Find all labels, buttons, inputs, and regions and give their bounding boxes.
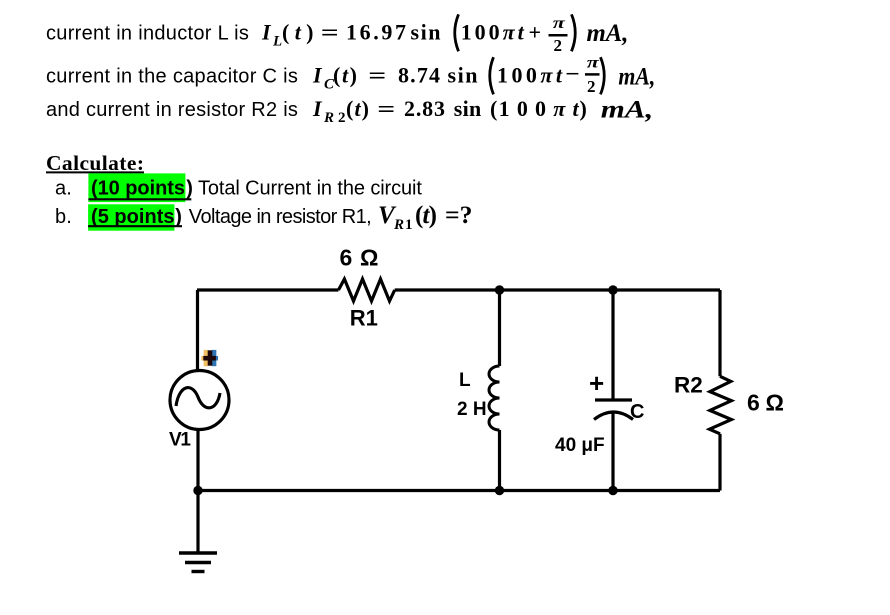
svg-text:mA,: mA,	[618, 64, 655, 91]
capacitor top plate	[595, 398, 632, 401]
node bottom-left junction	[193, 486, 202, 495]
svg-text:): )	[186, 178, 193, 200]
V1 plus sign blue ghost	[206, 350, 218, 366]
highlight a	[88, 173, 185, 202]
highlight b	[88, 204, 174, 230]
svg-text:current in inductor L is: current in inductor L is	[46, 23, 249, 45]
svg-text:V1: V1	[169, 430, 191, 451]
svg-text:L: L	[459, 370, 471, 391]
big right paren line2	[601, 57, 605, 94]
svg-text:): )	[175, 206, 182, 228]
svg-text:2: 2	[554, 36, 563, 55]
svg-text:sin: sin	[454, 96, 482, 121]
svg-text:6 Ω: 6 Ω	[747, 390, 784, 416]
bottom wire	[197, 489, 720, 492]
wire C branch bottom	[611, 412, 614, 491]
svg-text:I: I	[312, 96, 323, 121]
svg-text:−: −	[565, 61, 580, 86]
svg-text:40 μF: 40 μF	[555, 435, 605, 456]
wire L branch top	[498, 290, 501, 366]
svg-text:mA,: mA,	[587, 20, 629, 47]
svg-text:+: +	[589, 368, 604, 398]
wire top-right horizontal	[395, 288, 720, 291]
svg-text:(t): (t)	[333, 62, 357, 87]
big left paren line1	[455, 14, 459, 51]
ground bar 3	[192, 570, 205, 573]
ground bar 2	[185, 561, 211, 564]
svg-text:I: I	[261, 20, 272, 45]
wire R2 top	[718, 290, 721, 376]
node bottom-C junction	[608, 486, 617, 495]
svg-text:I: I	[312, 62, 323, 87]
svg-text:+: +	[529, 20, 542, 45]
svg-text:Total Current in the circuit: Total Current in the circuit	[198, 178, 422, 200]
svg-text:2.83: 2.83	[404, 96, 445, 121]
svg-text:current in the capacitor C is: current in the capacitor C is	[46, 65, 298, 87]
svg-text:C: C	[630, 401, 644, 423]
svg-text:R: R	[323, 110, 334, 126]
fraction bar line1	[549, 34, 568, 37]
svg-text:=: =	[377, 96, 395, 121]
underline item b	[88, 225, 182, 227]
svg-text:R: R	[393, 217, 404, 233]
svg-text:Voltage in resistor R1,: Voltage in resistor R1,	[189, 206, 372, 228]
svg-text:6 Ω: 6 Ω	[340, 245, 379, 271]
svg-text:2: 2	[587, 77, 596, 96]
underline item a	[88, 198, 191, 200]
svg-text:1: 1	[405, 217, 413, 233]
svg-text:mA,: mA,	[601, 97, 654, 124]
svg-text:L: L	[272, 34, 282, 50]
wire top-left horizontal	[197, 288, 339, 291]
voltage source V1	[170, 371, 229, 430]
svg-text:R1: R1	[350, 306, 378, 331]
svg-text:Calculate:: Calculate:	[46, 151, 144, 175]
svg-text:16.97: 16.97	[346, 20, 406, 45]
wire R2 bottom	[718, 434, 721, 491]
V1 sine wave	[176, 388, 220, 408]
node top-C junction	[608, 285, 617, 294]
svg-text:sin: sin	[411, 20, 441, 45]
svg-text:8.74: 8.74	[398, 62, 440, 87]
svg-text:π: π	[553, 15, 567, 32]
wire left vertical	[196, 290, 199, 372]
V1 plus sign orange ghost	[201, 350, 213, 366]
svg-text:100πt: 100πt	[499, 96, 580, 121]
svg-text:(5 points: (5 points	[91, 206, 175, 228]
svg-text:): )	[580, 96, 587, 121]
node top-L junction	[495, 285, 504, 294]
svg-text:100πt: 100πt	[497, 62, 563, 87]
svg-text:(t): (t)	[282, 20, 314, 45]
svg-text:2 H: 2 H	[457, 399, 487, 420]
wire C branch top	[611, 290, 614, 399]
svg-text:(t): (t)	[346, 96, 369, 121]
svg-text:π: π	[587, 55, 601, 72]
wire below source	[196, 429, 199, 553]
svg-text:=?: =?	[445, 202, 473, 229]
wire L branch bottom	[498, 430, 501, 491]
heading underline	[46, 171, 144, 173]
svg-text:b.: b.	[55, 206, 72, 228]
resistor R2	[710, 376, 732, 434]
V1 plus sign black core	[203, 350, 216, 365]
svg-text:=: =	[321, 20, 339, 45]
svg-text:a.: a.	[55, 178, 72, 200]
fraction bar line2	[585, 73, 600, 76]
svg-text:100πt: 100πt	[461, 20, 525, 45]
inductor L coil	[489, 366, 499, 430]
svg-text:2: 2	[338, 110, 346, 126]
svg-text:sin: sin	[448, 62, 478, 87]
svg-text:=: =	[368, 62, 386, 87]
svg-text:R2: R2	[674, 373, 703, 398]
svg-text:and current in resistor R2 is: and current in resistor R2 is	[46, 99, 298, 121]
node bottom-L junction	[495, 486, 504, 495]
capacitor curved plate	[594, 412, 633, 420]
svg-text:(: (	[490, 96, 497, 121]
resistor R1	[339, 279, 395, 301]
big left paren line2	[490, 57, 494, 94]
svg-text:(10 points: (10 points	[91, 178, 185, 200]
big right paren line1	[572, 14, 576, 51]
ground bar 1	[179, 551, 217, 554]
svg-text:(t): (t)	[415, 202, 437, 229]
